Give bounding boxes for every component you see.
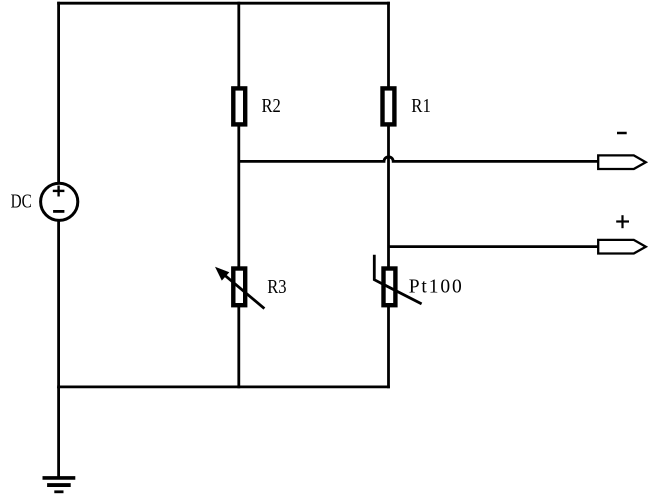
- svg-text:Pt100: Pt100: [409, 277, 462, 298]
- wire top rail: [57, 2, 390, 5]
- terminal minus: [598, 155, 646, 169]
- wire middle vertical mid: [237, 124, 240, 269]
- label plus: [616, 215, 629, 228]
- RTD Pt100: [374, 255, 421, 306]
- potentiometer R3: [215, 267, 264, 309]
- svg-text:R1: R1: [411, 95, 431, 116]
- wire right vertical upper: [387, 2, 390, 89]
- label minus: [617, 132, 627, 135]
- wire bridge output plus: [389, 245, 599, 248]
- wire ground stem: [57, 387, 60, 478]
- label R1: [411, 95, 431, 116]
- wire bridge output minus with hop: [239, 157, 599, 162]
- wire right vertical lower: [387, 305, 390, 388]
- label DC: [11, 190, 32, 212]
- label R2: [262, 95, 281, 117]
- terminal plus: [598, 240, 646, 254]
- resistor R1: [383, 88, 395, 124]
- wire bottom rail: [57, 385, 390, 388]
- label Pt100: [409, 277, 462, 298]
- svg-text:DC: DC: [11, 190, 32, 212]
- resistor R2: [233, 88, 245, 124]
- ground: [43, 478, 76, 492]
- label R3: [267, 276, 286, 298]
- wire left vertical upper: [57, 2, 60, 184]
- wire middle vertical upper: [237, 2, 240, 89]
- voltage source DC: [41, 183, 78, 220]
- wire left vertical lower: [57, 220, 60, 388]
- svg-text:R3: R3: [267, 276, 286, 298]
- wire right vertical mid: [387, 124, 390, 269]
- wire middle vertical lower: [237, 305, 240, 388]
- svg-text:R2: R2: [262, 95, 281, 117]
